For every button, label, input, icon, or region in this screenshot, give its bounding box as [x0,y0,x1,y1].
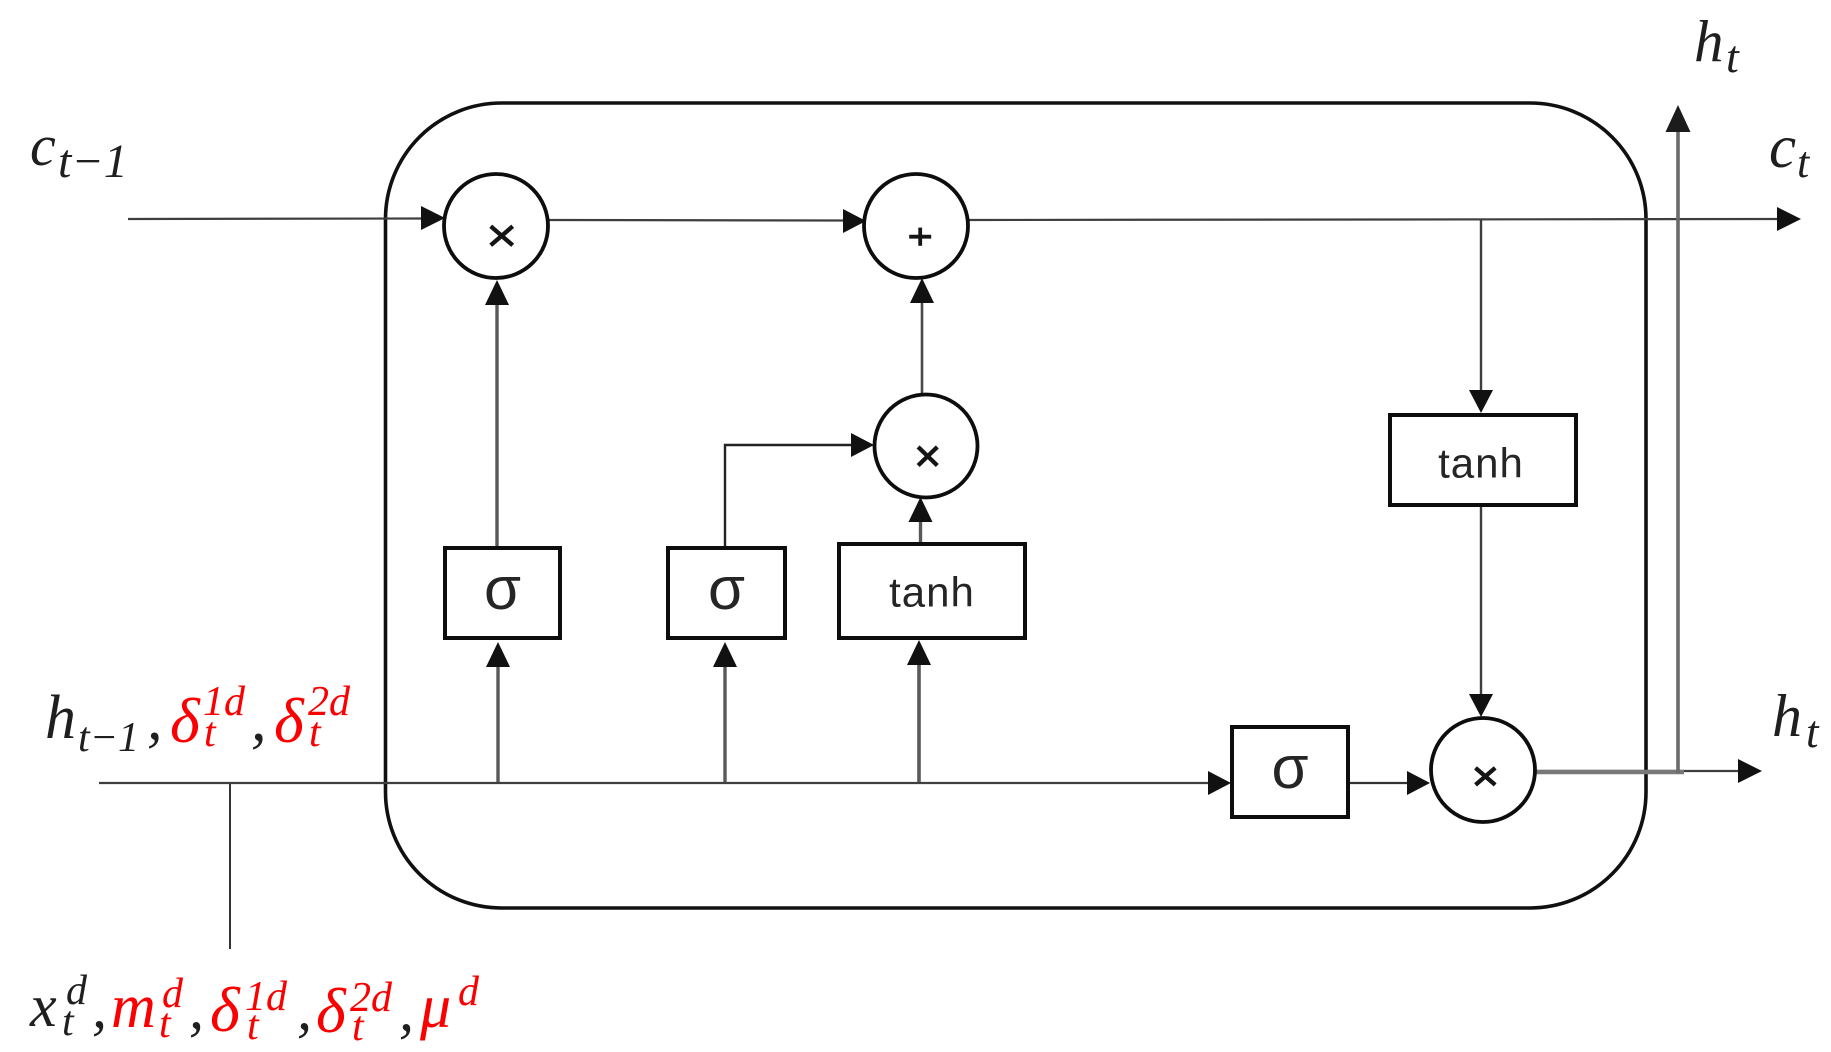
svg-text:x: x [29,973,57,1039]
svg-text:δ: δ [274,685,305,756]
sigma box 1 (forget gate) [445,548,560,638]
svg-text:,: , [297,976,312,1042]
svg-text:t: t [159,1001,172,1047]
wire tanh middle up to X2 [919,522,922,544]
wire h_t branch vertical up [1676,131,1680,773]
wire h_{t-1} input [99,782,1210,784]
svg-text:t−1: t−1 [78,715,139,761]
wire x_t branch down [229,784,231,949]
sigma box 3 (output gate) [1232,727,1348,817]
tanh box right (cell output) [1390,415,1576,505]
wire gate arrow up into tanh middle [917,664,921,782]
tanh box middle (candidate) [839,544,1025,638]
multiplier X3 (output product) [1431,718,1535,822]
svg-text:tanh: tanh [1438,440,1524,487]
svg-text:δ: δ [316,975,347,1046]
svg-text:t: t [1797,138,1811,187]
wire c_{t-1} input [128,217,423,220]
wire h_t output to the right [1536,770,1741,772]
svg-text:t: t [204,710,217,756]
svg-text:d: d [458,969,480,1015]
svg-text:t: t [247,1003,260,1049]
sigma box 2 (input gate) [668,548,785,638]
svg-text:μ: μ [419,973,451,1041]
wire gate arrow up into sigma1 [496,666,499,782]
svg-text:tanh: tanh [889,569,975,616]
svg-text:m: m [111,973,156,1041]
wire branch c-line down to tanh [1480,220,1482,391]
wire sigma2 elbow to X2 [725,445,852,548]
svg-text:σ: σ [708,555,745,622]
svg-text:,: , [251,686,267,754]
wire X1 to adder [548,219,843,222]
svg-text:δ: δ [170,685,201,756]
svg-text:t−1: t−1 [58,135,128,188]
svg-text:δ: δ [210,974,241,1045]
svg-text:h: h [1772,683,1802,749]
wire tanh to X3 [1480,505,1482,695]
multiplier X2 (candidate product) [875,395,978,498]
svg-text:t: t [352,1004,365,1050]
svg-text:t: t [62,999,75,1045]
wire sigma1 up to X1 [495,304,498,548]
wire gate arrow up into sigma2 [723,666,726,782]
svg-text:,: , [399,977,414,1043]
svg-text:t: t [1806,707,1820,757]
svg-text:h: h [45,684,76,752]
wire h_t branch horizontal (grey) [1535,770,1684,775]
svg-text:σ: σ [484,555,521,622]
svg-text:,: , [147,685,163,753]
multiplier X1 (forget product) [444,174,548,278]
svg-text:c: c [1769,114,1796,181]
svg-text:,: , [189,975,204,1041]
svg-text:,: , [92,974,107,1040]
svg-text:t: t [309,710,322,756]
wire sigma3 to X3 [1348,782,1409,784]
wire adder to c_t output [967,219,1780,220]
svg-text:h: h [1694,8,1724,74]
adder + [864,174,968,278]
svg-text:σ: σ [1271,734,1308,801]
svg-text:c: c [30,113,56,178]
svg-text:t: t [1726,31,1740,82]
wire X2 up to adder [921,302,924,394]
LSTM cell boundary [386,103,1647,908]
